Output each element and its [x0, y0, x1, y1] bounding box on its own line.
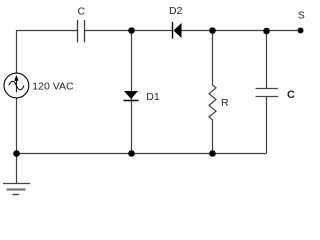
- svg-text:R: R: [221, 97, 229, 109]
- svg-text:C: C: [287, 89, 295, 101]
- svg-text:C: C: [78, 5, 86, 17]
- svg-text:S: S: [298, 10, 305, 22]
- svg-text:120 VAC: 120 VAC: [32, 80, 74, 92]
- svg-text:D1: D1: [146, 91, 160, 103]
- svg-text:D2: D2: [169, 5, 183, 17]
